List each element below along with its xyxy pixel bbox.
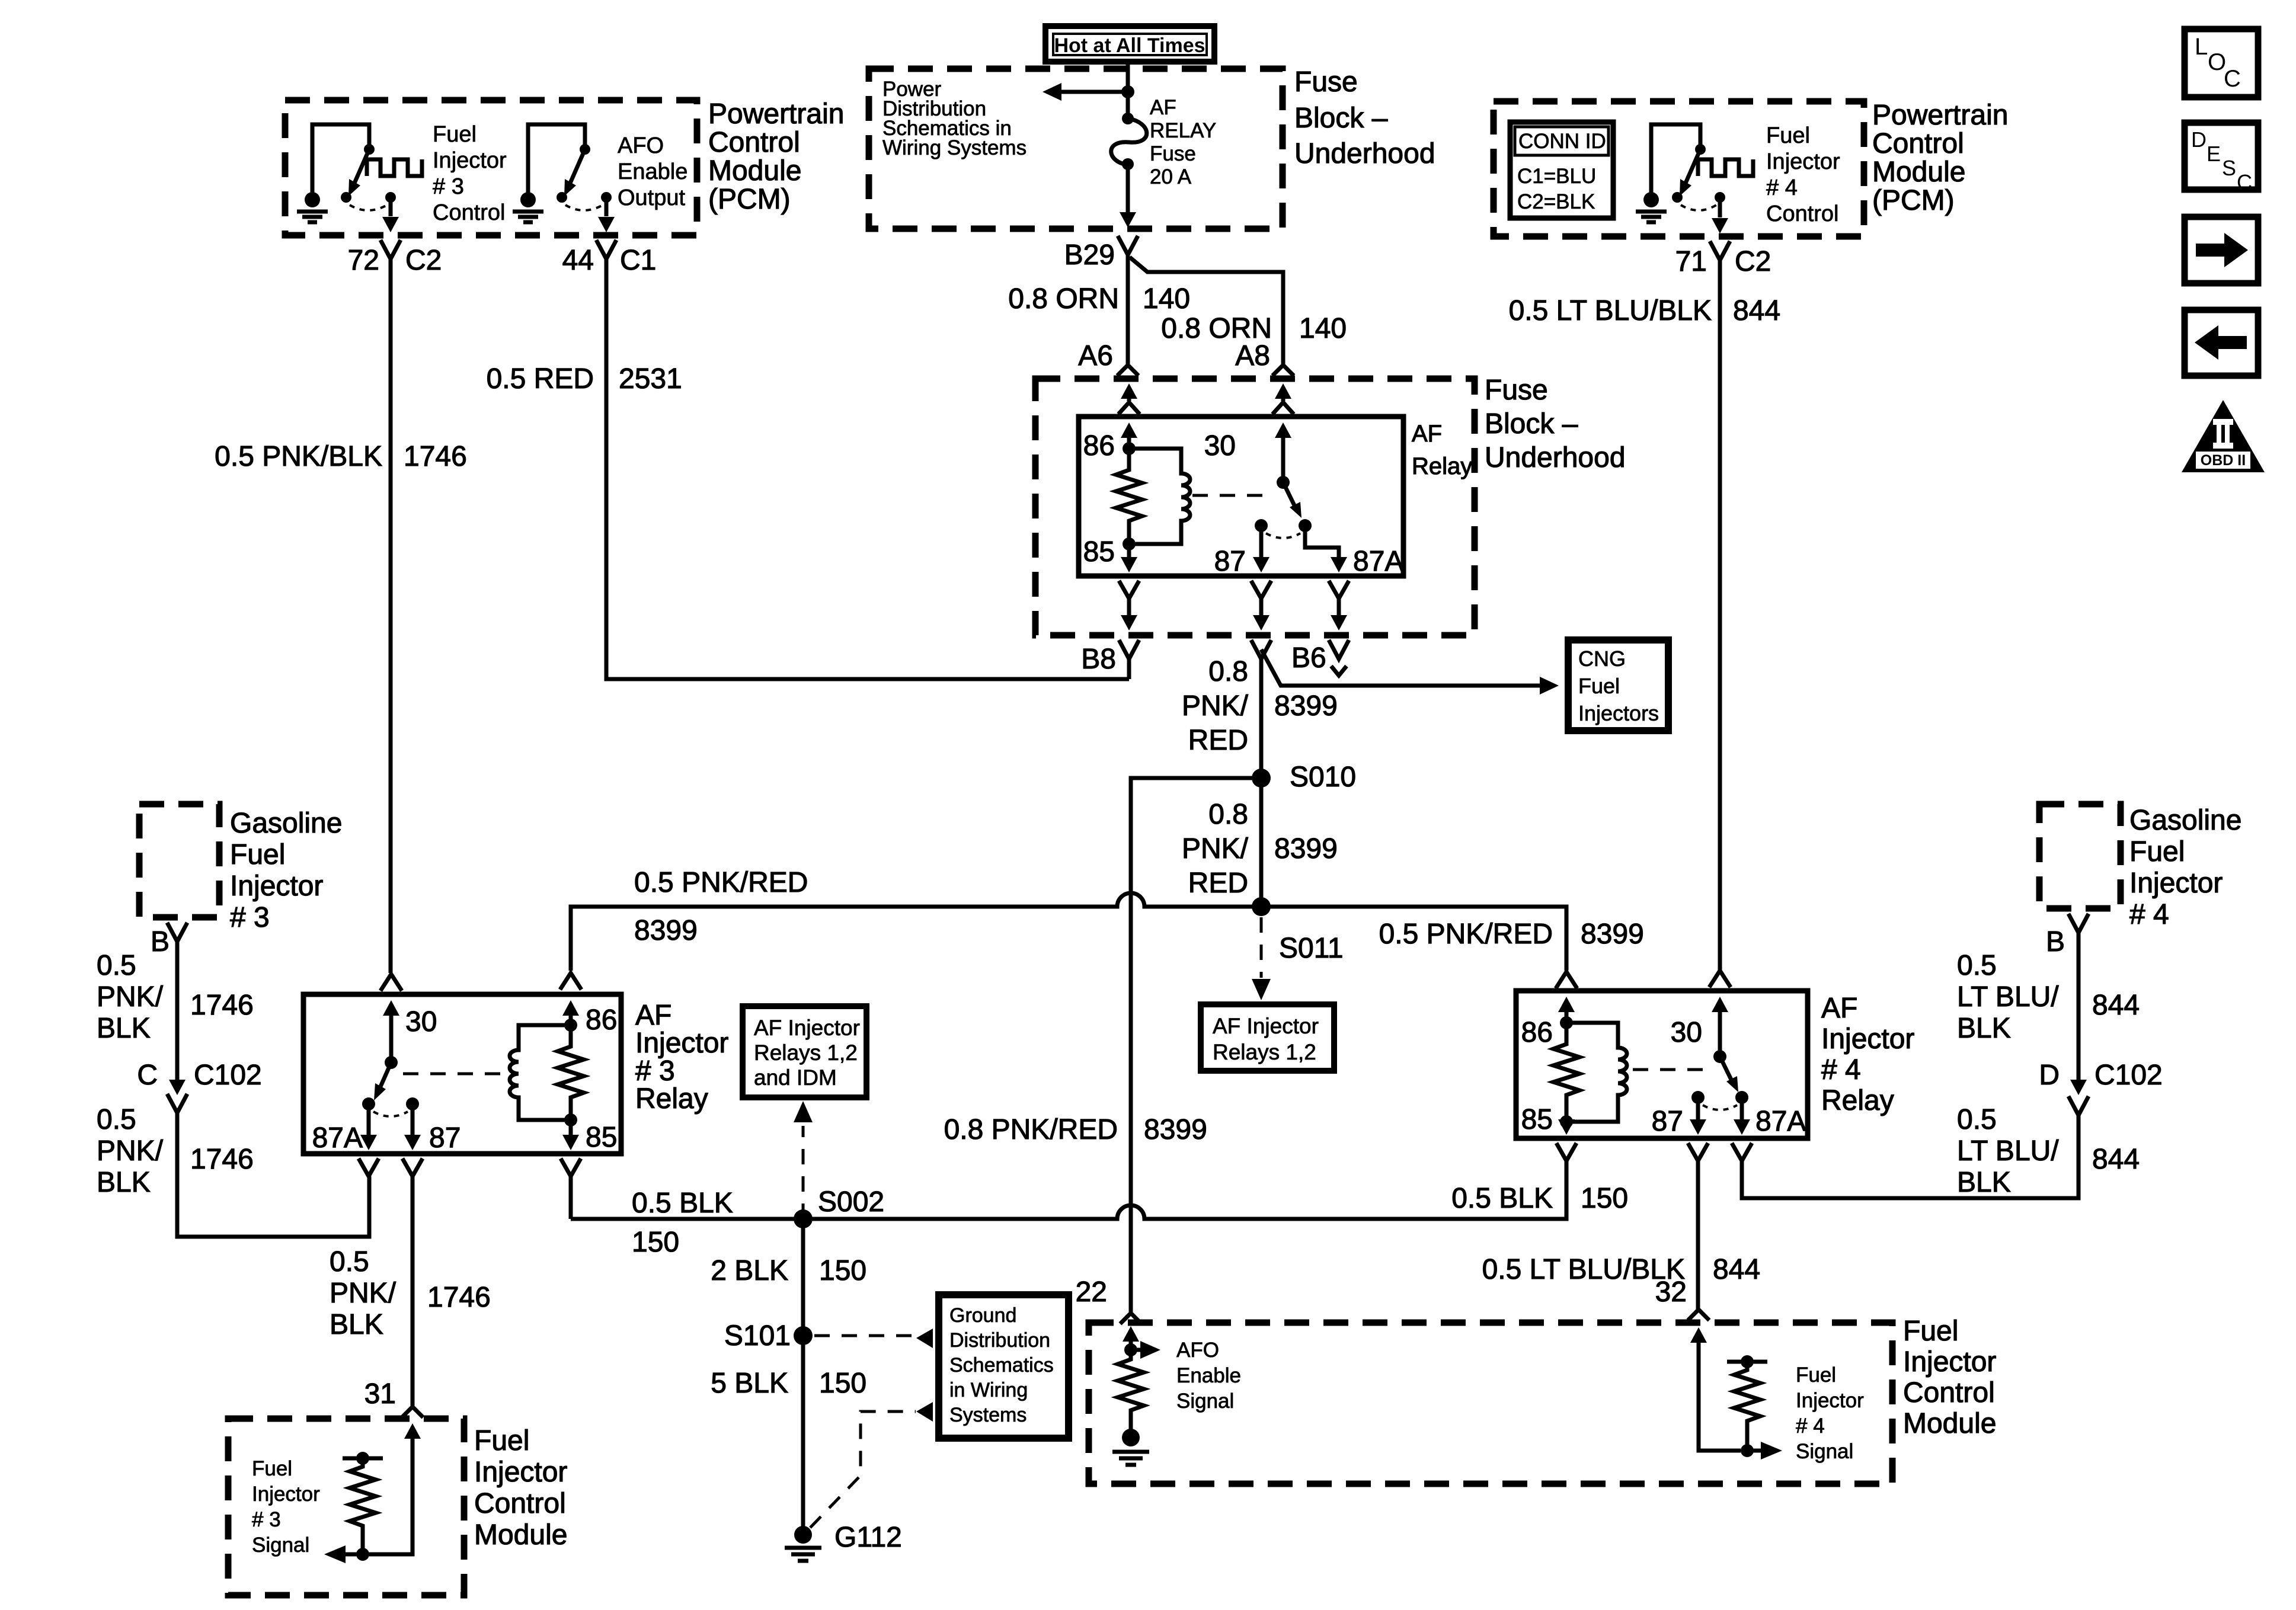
connector pin 71 C2 (Y below PCM) xyxy=(1710,241,1730,973)
svg-text:44: 44 xyxy=(562,245,594,276)
svg-text:0.5 PNK/RED: 0.5 PNK/RED xyxy=(634,867,808,898)
svg-text:# 4: # 4 xyxy=(1766,175,1798,200)
svg-text:1746: 1746 xyxy=(190,1144,254,1175)
svg-text:PNK/: PNK/ xyxy=(97,1135,164,1167)
component Gasoline Fuel Injector #3 dashed box xyxy=(139,804,219,917)
svg-text:Gasoline: Gasoline xyxy=(230,808,342,839)
svg-text:86: 86 xyxy=(586,1004,617,1036)
svg-text:Fuel: Fuel xyxy=(1903,1315,1958,1347)
connector pin 72 C2 (Y below PCM) xyxy=(380,240,401,973)
svg-text:BLK: BLK xyxy=(1957,1167,2011,1198)
svg-text:Relays 1,2: Relays 1,2 xyxy=(1213,1040,1316,1064)
svg-text:8399: 8399 xyxy=(634,915,698,946)
svg-text:# 3: # 3 xyxy=(252,1508,281,1531)
wire fuse output arrow at fuse block boundary xyxy=(1120,212,1136,228)
svg-text:S101: S101 xyxy=(724,1320,791,1352)
svg-text:# 3: # 3 xyxy=(433,174,464,199)
svg-text:Relay: Relay xyxy=(1821,1085,1894,1116)
relay4 pin 30 and switch xyxy=(1709,971,1731,987)
svg-text:Module: Module xyxy=(708,155,801,187)
relay AF Relay pin 85 arrow xyxy=(1127,544,1131,559)
relay3 switch xyxy=(385,1056,398,1069)
connector relay4 87A below box (Y) wire to C102 D xyxy=(1732,1115,2078,1198)
connector terminal 22 into Fuel Injector Control Module xyxy=(1120,1313,1141,1324)
svg-text:OBD II: OBD II xyxy=(2201,452,2246,469)
connector A8 into fuse block (arrow + chevron) xyxy=(1275,383,1291,399)
svg-text:C1=BLU: C1=BLU xyxy=(1517,165,1596,188)
splice S011 xyxy=(1252,897,1271,916)
wire S101 to G112 xyxy=(801,1336,805,1535)
svg-text:Fuse: Fuse xyxy=(1294,66,1358,98)
svg-text:A6: A6 xyxy=(1078,340,1113,372)
svg-text:S010: S010 xyxy=(1290,761,1356,793)
connector pin A8 (chevron above fuse block) xyxy=(1272,365,1294,376)
svg-text:AFO: AFO xyxy=(618,133,664,158)
icon DESC box xyxy=(2185,123,2258,194)
connector relay4 85 below box (Y) to ground row xyxy=(1556,1143,1576,1219)
svg-text:Block –: Block – xyxy=(1294,103,1388,134)
svg-text:C1: C1 xyxy=(620,245,656,276)
svg-text:Block –: Block – xyxy=(1485,408,1578,440)
svg-text:G112: G112 xyxy=(834,1522,902,1553)
svg-text:87A: 87A xyxy=(312,1122,363,1154)
icon LOC box xyxy=(2185,29,2258,97)
driver Fuel Injector #4 Control : ground xyxy=(1636,192,1667,222)
svg-text:86: 86 xyxy=(1083,430,1115,462)
connector pin 44 C1 (Y below PCM) xyxy=(596,240,1129,679)
svg-text:Module: Module xyxy=(1872,156,1965,188)
svg-text:Module: Module xyxy=(1903,1408,1996,1439)
svg-text:BLK: BLK xyxy=(330,1309,383,1340)
svg-text:C: C xyxy=(2237,170,2252,194)
svg-text:BLK: BLK xyxy=(97,1167,151,1198)
svg-text:Control: Control xyxy=(1903,1377,1995,1409)
svg-text:87A: 87A xyxy=(1353,546,1403,577)
svg-text:Schematics: Schematics xyxy=(949,1354,1054,1377)
svg-text:Signal: Signal xyxy=(252,1534,309,1557)
svg-text:AF: AF xyxy=(1150,96,1176,119)
svg-text:Relay: Relay xyxy=(1412,453,1472,479)
connector into relay3 pin 86 (chevron + arrow) xyxy=(560,973,581,990)
svg-text:85: 85 xyxy=(1521,1104,1553,1135)
svg-text:and IDM: and IDM xyxy=(754,1065,837,1090)
svg-text:0.5 BLK: 0.5 BLK xyxy=(632,1188,733,1219)
svg-text:1746: 1746 xyxy=(427,1282,491,1313)
svg-text:AF: AF xyxy=(1821,993,1857,1024)
svg-text:Output: Output xyxy=(618,185,686,210)
svg-text:72: 72 xyxy=(348,245,379,276)
svg-text:PNK/: PNK/ xyxy=(1182,833,1249,865)
svg-text:140: 140 xyxy=(1299,313,1347,344)
svg-text:Control: Control xyxy=(1766,201,1839,226)
svg-text:L: L xyxy=(2195,34,2208,60)
svg-text:844: 844 xyxy=(2092,990,2140,1021)
splice S101 xyxy=(794,1326,813,1345)
svg-text:0.5 LT BLU/BLK: 0.5 LT BLU/BLK xyxy=(1509,295,1712,327)
wire branch B29 to A8 xyxy=(1130,257,1283,364)
svg-text:Injector: Injector xyxy=(1796,1389,1864,1412)
svg-text:(PCM): (PCM) xyxy=(708,184,791,215)
relay AF Relay contacts 87 87A xyxy=(1255,519,1268,532)
svg-text:AF Injector: AF Injector xyxy=(1213,1014,1319,1038)
relay AF Relay pin 86 arrow xyxy=(1121,422,1137,438)
svg-text:Injector: Injector xyxy=(1821,1023,1914,1055)
power feed box Hot at All Times xyxy=(1045,26,1214,62)
wire: injector 4 control output arrow at PCM boundary xyxy=(1718,197,1722,217)
connector into relay4 pin 86 (chevron + arrow) xyxy=(1556,972,1577,988)
svg-text:32: 32 xyxy=(1655,1276,1687,1308)
splice S002 xyxy=(794,1209,813,1228)
svg-text:AFO: AFO xyxy=(1176,1339,1219,1362)
svg-text:C2: C2 xyxy=(405,245,442,276)
svg-text:E: E xyxy=(2207,142,2221,166)
svg-text:0.5 PNK/RED: 0.5 PNK/RED xyxy=(1379,918,1553,950)
svg-text:22: 22 xyxy=(1076,1276,1107,1308)
svg-text:Underhood: Underhood xyxy=(1294,138,1435,169)
driver Fuel Injector #3 Control : switch xyxy=(312,124,422,210)
connector relay 87A unused (Y, arrow, Y, open end) xyxy=(1329,581,1349,615)
table CONN ID C1=BLU C2=BLK xyxy=(1510,122,1613,218)
relay4 contacts 87 87A xyxy=(1691,1091,1705,1104)
splice S010 xyxy=(1252,769,1271,788)
svg-text:B: B xyxy=(151,926,170,958)
wire dashed from S002 up to AF Injector Relays box xyxy=(802,1126,805,1219)
svg-text:B6: B6 xyxy=(1291,642,1326,674)
svg-text:8399: 8399 xyxy=(1274,833,1338,865)
svg-text:PNK/: PNK/ xyxy=(330,1278,396,1309)
svg-text:# 3: # 3 xyxy=(635,1055,675,1087)
svg-text:LT BLU/: LT BLU/ xyxy=(1957,1135,2059,1167)
svg-text:S: S xyxy=(2222,156,2236,180)
connector relay4 87 below box (Y) to terminal 32 xyxy=(1688,1143,1708,1310)
svg-text:0.5 RED: 0.5 RED xyxy=(487,363,594,395)
svg-text:Distribution: Distribution xyxy=(949,1329,1050,1352)
svg-text:30: 30 xyxy=(1204,430,1236,462)
svg-text:Control: Control xyxy=(433,200,506,225)
svg-text:844: 844 xyxy=(1733,295,1780,327)
wire relay3 87 down to terminal 31 xyxy=(411,1176,415,1406)
wire dashed from S011 to AF Injector Relays box xyxy=(1260,917,1263,978)
connector relay 87 to B6 (Y, arrow, Y) xyxy=(1251,581,1271,615)
svg-text:Module: Module xyxy=(474,1519,567,1551)
wire ground row 150 from relay3 85 to relay4 85 with hop over terminal 22 wire xyxy=(571,1163,1566,1219)
box Ground Distribution Schematics in Wiring Systems xyxy=(939,1295,1069,1438)
connector C102 inline (arrow + Y) pin D xyxy=(2070,1080,2087,1095)
svg-text:C: C xyxy=(2224,66,2241,92)
connector into relay3 pin 30 (chevron + arrow) xyxy=(380,974,402,991)
svg-text:# 3: # 3 xyxy=(230,902,270,933)
svg-text:RED: RED xyxy=(1188,725,1248,756)
svg-text:Injector: Injector xyxy=(433,148,507,173)
wire S011 row: right branch to relay 4 pin 86 xyxy=(1261,907,1566,971)
svg-text:Injectors: Injectors xyxy=(1578,701,1659,725)
svg-text:PNK/: PNK/ xyxy=(97,981,164,1013)
svg-text:Fuel: Fuel xyxy=(252,1457,292,1480)
wire S011 row: left branch with hop over pin22 wire, to relay 3 pin 86 xyxy=(571,893,1261,971)
svg-text:0.5: 0.5 xyxy=(97,950,136,981)
svg-text:AF Injector: AF Injector xyxy=(754,1016,860,1040)
svg-text:Injector: Injector xyxy=(1766,149,1840,174)
svg-text:Fuel: Fuel xyxy=(230,839,285,870)
driver Fuel Injector #4 Control : switch xyxy=(1651,124,1753,210)
connector relay3 87A below box (Y) xyxy=(359,1158,379,1176)
svg-text:Fuse: Fuse xyxy=(1150,142,1196,165)
connector pin A6 (chevron above fuse block) xyxy=(1117,365,1139,376)
svg-text:Powertrain: Powertrain xyxy=(708,98,844,130)
connector relay3 85 below box (Y) xyxy=(561,1158,581,1219)
svg-text:0.8: 0.8 xyxy=(1208,656,1248,687)
svg-text:Fuse: Fuse xyxy=(1485,375,1548,406)
connector pin B injector 4 (Y below box) xyxy=(2068,914,2089,1080)
svg-text:Enable: Enable xyxy=(1176,1364,1241,1387)
svg-text:8399: 8399 xyxy=(1144,1114,1207,1145)
svg-text:Injector: Injector xyxy=(230,870,323,902)
relay3 pin 85 arrow xyxy=(569,1120,573,1135)
connector terminal 32 into module xyxy=(1688,1310,1709,1320)
svg-text:87: 87 xyxy=(1214,546,1246,577)
svg-text:Control: Control xyxy=(708,127,800,158)
svg-text:85: 85 xyxy=(1083,536,1115,568)
fuse AF RELAY Fuse 20 A xyxy=(1111,113,1147,215)
svg-text:85: 85 xyxy=(586,1122,617,1153)
svg-text:Injector: Injector xyxy=(2129,868,2223,899)
svg-text:30: 30 xyxy=(405,1006,437,1038)
wire dashed S101 to Ground Distribution box with arrow xyxy=(814,1334,916,1337)
svg-text:RED: RED xyxy=(1188,868,1248,899)
svg-text:0.5: 0.5 xyxy=(1957,1104,1997,1135)
svg-text:AF: AF xyxy=(1412,421,1442,447)
svg-text:140: 140 xyxy=(1143,283,1190,315)
svg-text:Fuel: Fuel xyxy=(2129,836,2185,868)
wire: AFO enable output arrow at PCM boundary xyxy=(605,197,609,216)
svg-text:71: 71 xyxy=(1675,246,1707,277)
svg-text:Signal: Signal xyxy=(1796,1440,1853,1463)
module Fuel Injector Control Module (bottom left) dashed box xyxy=(228,1419,464,1595)
svg-text:PNK/: PNK/ xyxy=(1182,690,1249,722)
svg-text:BLK: BLK xyxy=(97,1013,151,1044)
svg-text:150: 150 xyxy=(632,1227,679,1258)
connector pin B29 (Y below fuse block) xyxy=(1118,236,1138,364)
wire S002 to S101 xyxy=(801,1219,805,1336)
svg-text:2531: 2531 xyxy=(619,363,682,395)
module PCM right (Powertrain Control Module) dashed box xyxy=(1494,101,1864,236)
resistor AFO Enable Signal with ground xyxy=(1112,1326,1160,1465)
svg-text:CONN ID: CONN ID xyxy=(1518,130,1606,153)
wire: injector 3 control output with arrow at PCM boundary xyxy=(389,197,393,216)
driver AFO Enable Output : switch xyxy=(528,124,612,210)
relay4 pin 85 arrow xyxy=(1565,1120,1569,1122)
svg-text:C: C xyxy=(137,1060,158,1091)
svg-text:0.8 ORN: 0.8 ORN xyxy=(1008,283,1119,315)
svg-text:0.5: 0.5 xyxy=(330,1246,369,1278)
svg-text:Injector: Injector xyxy=(635,1028,728,1059)
connector terminal 31 into module xyxy=(402,1407,423,1417)
svg-text:S011: S011 xyxy=(1279,933,1344,964)
driver Fuel Injector #3 Control : ground xyxy=(297,192,328,222)
svg-text:1746: 1746 xyxy=(404,441,467,472)
svg-text:Relays 1,2: Relays 1,2 xyxy=(754,1041,858,1065)
relay AF Relay pin 30 and switch xyxy=(1275,422,1291,438)
svg-text:2 BLK: 2 BLK xyxy=(711,1255,788,1286)
relay AF Relay coil + resistor xyxy=(1116,442,1190,550)
wire S010 to S011 xyxy=(1259,778,1264,907)
svg-text:86: 86 xyxy=(1521,1017,1553,1048)
box AF Injector Relays 1,2 and IDM xyxy=(743,1006,866,1097)
icon back arrow box xyxy=(2185,310,2258,376)
connector A6 into fuse block (arrow + chevron) xyxy=(1121,383,1137,399)
wire branch B6 to CNG Fuel Injectors with arrow xyxy=(1261,649,1541,686)
svg-text:0.8 PNK/RED: 0.8 PNK/RED xyxy=(944,1114,1118,1145)
svg-text:87: 87 xyxy=(1652,1106,1683,1137)
svg-text:0.5 PNK/BLK: 0.5 PNK/BLK xyxy=(215,441,382,472)
svg-text:# 4: # 4 xyxy=(2129,899,2169,930)
relay AF Relay dashed actuator link xyxy=(1192,494,1274,497)
connector C102 inline (arrow + Y) pin C xyxy=(169,1080,186,1095)
svg-text:8399: 8399 xyxy=(1274,690,1338,722)
module PCM left (Powertrain Control Module) dashed box xyxy=(285,100,697,235)
driver AFO Enable Output : ground xyxy=(513,192,543,222)
svg-text:Gasoline: Gasoline xyxy=(2129,805,2241,836)
svg-text:B29: B29 xyxy=(1064,239,1115,271)
component Gasoline Fuel Injector #4 dashed box xyxy=(2039,804,2121,908)
svg-text:Powertrain: Powertrain xyxy=(1872,100,2008,131)
relay AF Injector #4 Relay box xyxy=(1516,991,1808,1138)
svg-text:150: 150 xyxy=(1581,1183,1628,1214)
svg-text:C102: C102 xyxy=(2094,1060,2163,1091)
relay AF Injector #3 Relay box xyxy=(303,994,621,1154)
icon forward arrow box xyxy=(2185,217,2258,283)
svg-text:Systems: Systems xyxy=(949,1404,1027,1426)
svg-text:A8: A8 xyxy=(1235,340,1270,372)
svg-text:Enable: Enable xyxy=(618,159,687,184)
svg-text:Fuel: Fuel xyxy=(1766,123,1810,148)
svg-text:B8: B8 xyxy=(1081,644,1116,675)
svg-text:S002: S002 xyxy=(818,1186,884,1218)
svg-text:D: D xyxy=(2191,127,2207,152)
relay AF Relay box xyxy=(1079,417,1403,576)
svg-text:AF: AF xyxy=(635,1000,671,1031)
svg-text:D: D xyxy=(2039,1060,2060,1091)
svg-text:RELAY: RELAY xyxy=(1150,119,1216,142)
svg-text:0.5 BLK: 0.5 BLK xyxy=(1451,1183,1553,1214)
svg-text:Fuel: Fuel xyxy=(474,1425,529,1457)
module Fuse Block - Underhood (top) dashed box xyxy=(869,69,1283,229)
svg-text:5 BLK: 5 BLK xyxy=(711,1368,788,1399)
svg-text:8399: 8399 xyxy=(1581,918,1644,950)
svg-text:87: 87 xyxy=(429,1122,461,1154)
icon OBD II triangle xyxy=(2182,400,2265,472)
svg-text:Control: Control xyxy=(1872,128,1964,159)
svg-text:844: 844 xyxy=(2092,1144,2140,1175)
svg-text:0.5: 0.5 xyxy=(1957,950,1997,981)
svg-text:30: 30 xyxy=(1671,1017,1702,1048)
wire dashed from G112 to Ground Distribution box with arrow xyxy=(810,1411,916,1528)
relay3 dashed actuator link xyxy=(403,1073,507,1076)
node feed junction with arrow to power distribution xyxy=(1121,85,1134,98)
resistor Fuel Injector #3 Signal xyxy=(324,1452,383,1563)
resistor Fuel Injector #4 Signal xyxy=(1727,1355,1782,1459)
svg-text:87A: 87A xyxy=(1755,1106,1806,1137)
svg-text:Hot at All Times: Hot at All Times xyxy=(1054,34,1205,57)
svg-text:Wiring Systems: Wiring Systems xyxy=(882,136,1027,159)
svg-text:CNG: CNG xyxy=(1578,646,1626,671)
connector relay 85 to B8 (Y, arrow, Y) xyxy=(1119,581,1139,615)
ground G112 xyxy=(785,1526,821,1561)
svg-text:1746: 1746 xyxy=(190,990,254,1021)
svg-text:Ground: Ground xyxy=(949,1304,1016,1327)
module Fuse Block - Underhood (middle) dashed box xyxy=(1035,379,1475,635)
svg-text:BLK: BLK xyxy=(1957,1013,2011,1044)
svg-text:# 4: # 4 xyxy=(1821,1054,1861,1086)
svg-text:20 A: 20 A xyxy=(1150,165,1192,188)
connector relay3 87 below box (Y) xyxy=(402,1158,423,1176)
svg-text:844: 844 xyxy=(1713,1254,1760,1285)
svg-text:0.5: 0.5 xyxy=(97,1104,136,1135)
svg-text:C102: C102 xyxy=(194,1060,262,1091)
svg-text:B: B xyxy=(2046,926,2065,958)
svg-text:# 4: # 4 xyxy=(1796,1414,1825,1438)
svg-text:LT BLU/: LT BLU/ xyxy=(1957,981,2059,1013)
connector pin B injector 3 (Y below box) xyxy=(167,923,187,1080)
svg-text:31: 31 xyxy=(364,1378,396,1410)
relay4 coil + resistor xyxy=(1553,1016,1627,1128)
relay4 dashed actuator link xyxy=(1633,1068,1712,1071)
svg-text:Fuel: Fuel xyxy=(433,122,477,147)
svg-text:Signal: Signal xyxy=(1176,1390,1234,1413)
svg-text:C2=BLK: C2=BLK xyxy=(1517,190,1595,213)
svg-text:Relay: Relay xyxy=(635,1083,708,1115)
svg-text:Fuel: Fuel xyxy=(1578,674,1620,698)
wire S010 branch left and down to terminal 22 xyxy=(1131,778,1261,1312)
module Fuel Injector Control Module (bottom) dashed box xyxy=(1089,1323,1892,1484)
wire from Hot at All Times down xyxy=(1126,63,1130,116)
svg-text:(PCM): (PCM) xyxy=(1872,185,1955,216)
svg-text:Injector: Injector xyxy=(1903,1346,1996,1378)
svg-text:Underhood: Underhood xyxy=(1485,442,1626,473)
svg-text:C2: C2 xyxy=(1735,246,1771,277)
relay3 contacts 87A 87 xyxy=(362,1097,375,1110)
svg-text:in Wiring: in Wiring xyxy=(949,1379,1028,1401)
svg-text:Injector: Injector xyxy=(252,1483,320,1506)
svg-text:150: 150 xyxy=(819,1368,866,1399)
svg-text:Control: Control xyxy=(474,1488,566,1519)
relay3 coil + resistor xyxy=(510,1019,584,1126)
box AF Injector Relays 1,2 xyxy=(1201,1004,1334,1071)
svg-text:0.8: 0.8 xyxy=(1208,799,1248,830)
box CNG Fuel Injectors xyxy=(1568,640,1668,731)
svg-text:Fuel: Fuel xyxy=(1796,1363,1836,1387)
svg-text:Injector: Injector xyxy=(474,1457,567,1488)
svg-text:150: 150 xyxy=(819,1255,866,1286)
